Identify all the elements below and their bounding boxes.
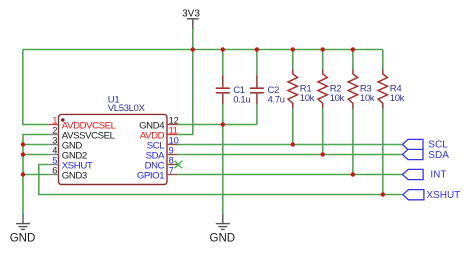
global label SCL: [402, 139, 448, 150]
no-connect X on pin 8: [175, 161, 183, 169]
svg-text:VL53L0X: VL53L0X: [108, 103, 146, 114]
wire: SDA: [177, 154, 402, 156]
junction R4 / XSHUT: [381, 192, 385, 196]
svg-text:12: 12: [169, 115, 179, 125]
capacitor C1: [216, 75, 251, 105]
pin 12 GND4 stub: [167, 124, 177, 126]
svg-text:9: 9: [169, 145, 174, 155]
junction R1 / SCL: [291, 142, 295, 146]
svg-text:8: 8: [169, 155, 174, 165]
pin 8 DNC stub: [167, 164, 178, 166]
junction C1 top: [221, 47, 225, 51]
wire: pin6 stub to bus: [23, 174, 49, 176]
global label XSHUT: [403, 190, 460, 202]
svg-text:0.1u: 0.1u: [233, 95, 250, 106]
resistor R2: [318, 70, 345, 109]
wire: XSHUT from pin5 to tag: [39, 165, 403, 195]
wire: R1 top: [292, 50, 294, 71]
svg-text:GPIO1: GPIO1: [137, 170, 164, 181]
junction GND bus pin4: [21, 152, 25, 156]
junction R2 / SDA: [321, 152, 325, 156]
svg-text:3: 3: [52, 135, 57, 145]
junction R3 top: [351, 47, 355, 51]
svg-text:11: 11: [169, 125, 178, 135]
junction C2 top: [255, 47, 259, 51]
wire: SCL: [177, 144, 402, 146]
wire: pin4 stub to bus: [23, 154, 49, 156]
pin 1 AVDDVCSEL stub: [49, 124, 59, 126]
pin 7 GPIO1 stub: [167, 174, 177, 176]
svg-text:1: 1: [52, 115, 57, 125]
global label INT: [402, 169, 446, 180]
svg-text:4: 4: [52, 145, 57, 155]
wire: C2 top: [256, 50, 258, 76]
junction GND bus pin6: [21, 172, 25, 176]
pin 6 GND3 stub: [49, 174, 59, 176]
wire: R1 bottom: [292, 108, 294, 145]
wire: pin3 stub to bus: [23, 144, 49, 146]
junction R2 top: [321, 47, 325, 51]
junction R3 / INT: [351, 172, 355, 176]
svg-text:10k: 10k: [390, 93, 405, 104]
resistor R1: [288, 70, 315, 109]
junction C1 bottom / GND: [221, 122, 225, 126]
resistor R4: [378, 70, 405, 109]
junction GND bus pin3: [21, 142, 25, 146]
wire: GND4 pin12 horizontal: [177, 124, 257, 126]
svg-text:10k: 10k: [360, 93, 375, 104]
svg-text:XSHUT: XSHUT: [426, 190, 460, 201]
svg-text:4.7u: 4.7u: [268, 95, 285, 106]
wire: C1 top: [222, 50, 224, 76]
power symbol 3V3: [182, 9, 200, 30]
svg-text:GND3: GND3: [62, 170, 87, 181]
IC U1 VL53L0X body: [59, 94, 168, 184]
pin 10 SCL stub: [167, 144, 177, 146]
svg-text:GND: GND: [210, 233, 236, 245]
resistor R3: [348, 70, 375, 109]
wire: R4 bottom: [382, 108, 384, 195]
wire: 3V3 rail: [23, 49, 383, 51]
svg-text:7: 7: [169, 165, 174, 175]
pin 9 SDA stub: [167, 154, 177, 156]
wire: R2 bottom: [322, 108, 324, 155]
wire: 3V3 stem down to rail and AVDD: [177, 29, 193, 135]
capacitor C2: [250, 75, 285, 105]
pin 4 GND2 stub: [49, 154, 59, 156]
pin 2 AVSSVCSEL stub: [49, 134, 59, 136]
wire: R3 top: [352, 50, 354, 71]
global label SDA: [402, 149, 449, 161]
ground symbol left: [10, 214, 36, 245]
pin 3 GND stub: [49, 144, 59, 146]
svg-text:3V3: 3V3: [182, 9, 200, 20]
svg-text:GND: GND: [10, 233, 36, 245]
svg-text:10k: 10k: [330, 93, 345, 104]
wire: R3 bottom: [352, 108, 354, 175]
svg-text:10: 10: [169, 135, 179, 145]
svg-text:6: 6: [52, 165, 57, 175]
pin 11 AVDD stub: [167, 134, 177, 136]
svg-text:5: 5: [52, 155, 57, 165]
wire: C1 bottom + center GND drop: [222, 104, 224, 214]
wire: rail left drop to pin 1: [23, 50, 49, 125]
svg-text:SDA: SDA: [428, 150, 449, 161]
junction 3V3/AVDD on rail: [191, 47, 195, 51]
wire: pin2 to GND bus: [23, 135, 49, 215]
svg-text:INT: INT: [430, 170, 446, 181]
junction R1 top: [291, 47, 295, 51]
wire: R4 top (rail corner): [382, 50, 384, 71]
svg-text:10k: 10k: [300, 93, 315, 104]
wire: INT (GPIO1): [177, 174, 402, 176]
wire: C2 bottom: [256, 104, 258, 125]
pin 5 XSHUT stub: [49, 164, 59, 166]
svg-text:2: 2: [52, 125, 57, 135]
wire: R2 top: [322, 50, 324, 71]
ground symbol center: [210, 214, 236, 245]
